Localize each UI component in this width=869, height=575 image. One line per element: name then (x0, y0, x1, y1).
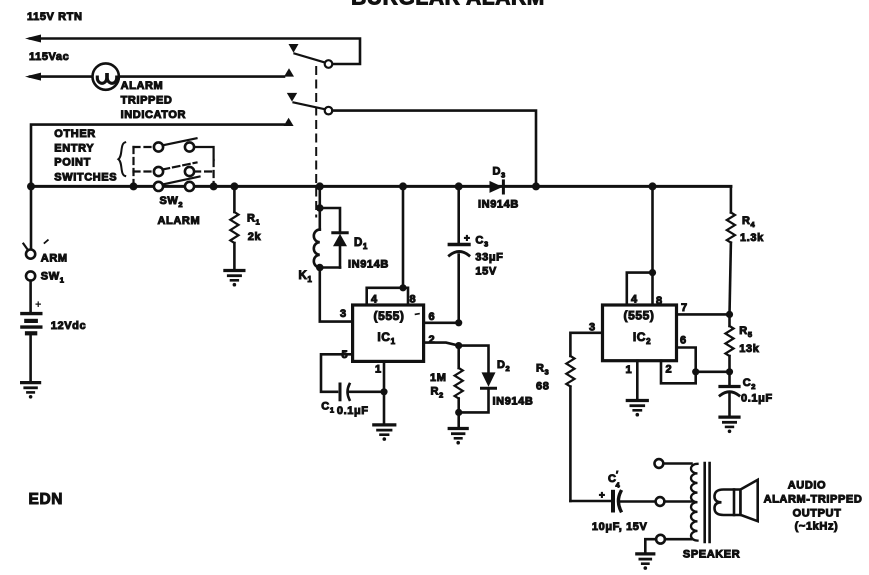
label C3 33uF 15V (475, 235, 503, 278)
svg-text:ENTRY: ENTRY (54, 143, 94, 155)
svg-text:10μF, 15V: 10μF, 15V (592, 521, 648, 533)
svg-text:OTHER: OTHER (54, 128, 96, 140)
label 115Vac (29, 51, 69, 63)
label C4 10uF 15V (592, 470, 648, 534)
svg-text:2k: 2k (248, 231, 262, 243)
brace (118, 142, 125, 176)
label R1 2k (247, 213, 262, 244)
svg-text:IN914B: IN914B (348, 259, 389, 271)
transformer primary terminal bottom (645, 535, 691, 553)
svg-text:R5: R5 (739, 325, 752, 339)
svg-text:R3: R3 (536, 363, 549, 377)
relay contact 2 (NC arrow, blade, pivot) (287, 93, 333, 114)
label ARM SW1 (41, 253, 68, 285)
svg-text:R1: R1 (247, 213, 260, 227)
pin label 5 (IC1) (342, 349, 349, 361)
label D1 IN914B (348, 237, 389, 271)
transformer primary terminal middle (656, 497, 692, 506)
pin label 2 (IC2) (666, 364, 673, 376)
pin label 1 (IC1) (375, 364, 382, 376)
label D2 IN914B (493, 359, 534, 408)
svg-text:ALARM: ALARM (158, 215, 201, 227)
svg-text:IN914B: IN914B (478, 199, 519, 211)
svg-text:1: 1 (375, 364, 382, 376)
svg-text:6: 6 (680, 335, 687, 347)
wire 115V RTN line with left arrowhead (25, 35, 360, 65)
svg-text:0.1μF: 0.1μF (337, 405, 369, 417)
pin label 6 (IC2) (680, 335, 687, 347)
svg-text:4: 4 (371, 294, 378, 306)
pin label 4 (IC1) (371, 294, 378, 306)
svg-text:4: 4 (616, 481, 621, 490)
capacitor C1 0.1uF (340, 384, 388, 400)
resistor R2 1M (455, 368, 463, 427)
label 1M R2 (430, 372, 446, 400)
op-amp/timer IC1 555 box (353, 305, 424, 361)
svg-text:1: 1 (626, 364, 633, 376)
resistor R5 13k (725, 314, 733, 371)
entry switch row 1 (134, 138, 214, 160)
svg-text:D2: D2 (497, 359, 510, 373)
svg-text:3: 3 (340, 308, 347, 320)
label 12Vdc (51, 320, 86, 332)
capacitor C4 10uF (polarized) (599, 491, 656, 511)
svg-text:115Vac: 115Vac (29, 51, 69, 63)
wire IC1 pin 1 to ground (383, 361, 386, 423)
label ALARM TRIPPED INDICATOR (121, 80, 187, 121)
wire IC1 pin 6 to node (424, 319, 463, 326)
svg-text:68: 68 (536, 381, 549, 393)
pin label 8 (IC2) (656, 295, 663, 307)
svg-text:AUDIO: AUDIO (788, 480, 826, 492)
svg-text:C1: C1 (321, 401, 334, 415)
wire IC2 pin 7 to R4/R5 node (677, 311, 734, 318)
svg-text:13k: 13k (739, 343, 759, 355)
label R3 68 (536, 363, 549, 393)
wire main 12V bus (31, 185, 731, 188)
ground under R2 (449, 429, 467, 445)
svg-text:C3: C3 (475, 235, 488, 249)
wire IC1 pin 2 to node (424, 342, 463, 349)
label 115V RTN (27, 11, 83, 23)
pin label 6 (IC1) (429, 311, 436, 323)
svg-text:+: + (599, 491, 605, 502)
svg-text:2: 2 (429, 334, 436, 346)
title text (cropped by top edge) (351, 0, 545, 10)
svg-text:(555): (555) (373, 309, 404, 323)
svg-text:D3: D3 (493, 166, 506, 180)
svg-text:(555): (555) (623, 309, 654, 323)
svg-text:SPEAKER: SPEAKER (683, 549, 740, 561)
svg-text:C2: C2 (743, 377, 756, 391)
capacitor C3 33uF (polarized) (449, 234, 470, 323)
diode D3 IN914B on bus (490, 181, 504, 193)
ground under transformer (637, 554, 654, 570)
label SPEAKER (683, 549, 740, 561)
wire R3 to C4 (570, 500, 611, 503)
wire indicator return line down to bus (31, 125, 284, 187)
label C2 0.1uF (741, 377, 773, 405)
wire 115Vac line with left arrowhead (25, 73, 284, 81)
wire node to R2 (457, 346, 460, 368)
relay contact 1 (NC arrow, blade, pivot) (289, 44, 333, 68)
ground under C2 (720, 417, 739, 433)
fixed contact arrow (up) on 115Vac line (284, 68, 294, 76)
svg-text:115V RTN: 115V RTN (27, 11, 83, 23)
transformer primary winding (691, 464, 698, 541)
timer IC2 555 box (603, 305, 677, 361)
svg-text:33μF: 33μF (475, 252, 503, 264)
IC2 pins 4 header (627, 273, 653, 305)
pin label 1 (IC2) (626, 364, 633, 376)
wire bus to relay coil (316, 186, 324, 211)
svg-text:INDICATOR: INDICATOR (121, 109, 187, 121)
switch SW2 on bus (154, 177, 200, 191)
pin label 2 (IC1) (429, 334, 436, 346)
wire bus to IC2 pins 4/8 (649, 186, 656, 305)
wire coil to IC1 pin 3 (320, 268, 353, 322)
svg-text:IN914B: IN914B (493, 396, 534, 408)
svg-text:12Vdc: 12Vdc (51, 320, 86, 332)
relay coil K1 (314, 208, 324, 271)
svg-text:OUTPUT: OUTPUT (793, 508, 842, 520)
label OTHER ENTRY POINT SWITCHES (54, 128, 117, 183)
ground under battery (22, 383, 40, 399)
svg-text:ALARM-TRIPPED: ALARM-TRIPPED (764, 494, 863, 506)
svg-text:ALARM: ALARM (121, 80, 164, 92)
svg-text:SWITCHES: SWITCHES (54, 171, 117, 183)
svg-text:SW1: SW1 (41, 271, 65, 285)
pin label 3 (IC2) (589, 322, 596, 334)
svg-text:SW2: SW2 (160, 195, 184, 209)
wire contact 2 to bus (332, 111, 536, 187)
pin label 3 (IC1) (340, 308, 347, 320)
svg-text:POINT: POINT (54, 157, 91, 169)
capacitor C2 0.1uF (720, 372, 739, 416)
svg-text:ARM: ARM (41, 253, 68, 265)
transformer primary terminal top (655, 459, 692, 468)
battery 12Vdc (22, 299, 42, 381)
bus junction dots (27, 182, 657, 190)
svg-text:7: 7 (681, 302, 688, 314)
svg-text:TRIPPED: TRIPPED (121, 95, 173, 107)
diode D1 (parallel with K1) (320, 208, 347, 268)
dashed link left side (132, 147, 134, 184)
svg-text:R4: R4 (742, 215, 756, 229)
pin label 4 (IC2) (631, 294, 638, 306)
wire IC2 pin 6/2 loop (661, 348, 733, 384)
svg-text:1M: 1M (430, 372, 446, 384)
svg-text:6: 6 (429, 311, 436, 323)
svg-text:1.3k: 1.3k (740, 232, 764, 244)
svg-text:+: + (464, 234, 470, 245)
svg-text:D1: D1 (354, 237, 368, 251)
fixed contact arrow (up) on indicator line (284, 118, 294, 126)
pin label 8 (IC1) (410, 294, 417, 306)
IC1 pins 4 and 8 header (367, 284, 408, 305)
svg-text:15V: 15V (475, 266, 496, 278)
resistor R3 68 (566, 356, 574, 501)
wire IC1 pin 5 to C1 (321, 354, 353, 392)
relay actuator dashed link (315, 67, 317, 217)
svg-text:+: + (35, 299, 42, 311)
switch SW1 ARM (23, 240, 47, 280)
wire SW1 to battery (29, 281, 32, 312)
svg-text:(~1kHz): (~1kHz) (795, 521, 839, 533)
svg-text:′: ′ (616, 470, 619, 480)
svg-text:0.1μF: 0.1μF (741, 393, 773, 405)
label R4 1.3k (740, 215, 764, 244)
label IN914B (D3) (478, 199, 519, 211)
wire bus to C3 (457, 186, 460, 244)
label SW2 ALARM (158, 195, 201, 227)
label AUDIO ALARM-TRIPPED OUTPUT (~1kHz) (764, 480, 863, 533)
svg-text:8: 8 (410, 294, 417, 306)
label C1 0.1uF (321, 401, 368, 418)
label R5 13k (739, 325, 759, 355)
ground under IC2 pin 1 (627, 401, 647, 417)
resistor R4 1.3k (727, 186, 735, 314)
speaker driver (voice coil + magnet) (715, 490, 741, 516)
wire IC2 pin 1 to ground (636, 361, 639, 399)
wire bus to IC1 pins 4/8 (402, 186, 405, 287)
label EDN (29, 491, 64, 508)
pin label 7 (IC2) (681, 302, 688, 314)
speaker horn (741, 480, 758, 521)
lamp alarm tripped indicator (93, 63, 119, 89)
diode D2 IN914B (459, 346, 496, 413)
label D3 (493, 166, 506, 180)
svg-text:R2: R2 (431, 386, 444, 400)
svg-text:BURGLAR ALARM: BURGLAR ALARM (351, 0, 545, 10)
svg-text:EDN: EDN (29, 491, 64, 508)
svg-text:2: 2 (666, 364, 673, 376)
stray mark inside IC1 (416, 313, 420, 316)
resistor R1 2k (230, 186, 238, 269)
ground under R1 (225, 271, 244, 287)
label K1 (299, 270, 313, 284)
wire IC2 pin 3 to R3 (570, 333, 602, 356)
ground under IC1 pin 1 (374, 425, 395, 441)
entry switch row 2 (134, 163, 214, 177)
transformer core (705, 463, 710, 542)
wire bus to SW1 (30, 186, 33, 249)
svg-text:K1: K1 (299, 270, 313, 284)
dashed link right side (213, 160, 215, 184)
